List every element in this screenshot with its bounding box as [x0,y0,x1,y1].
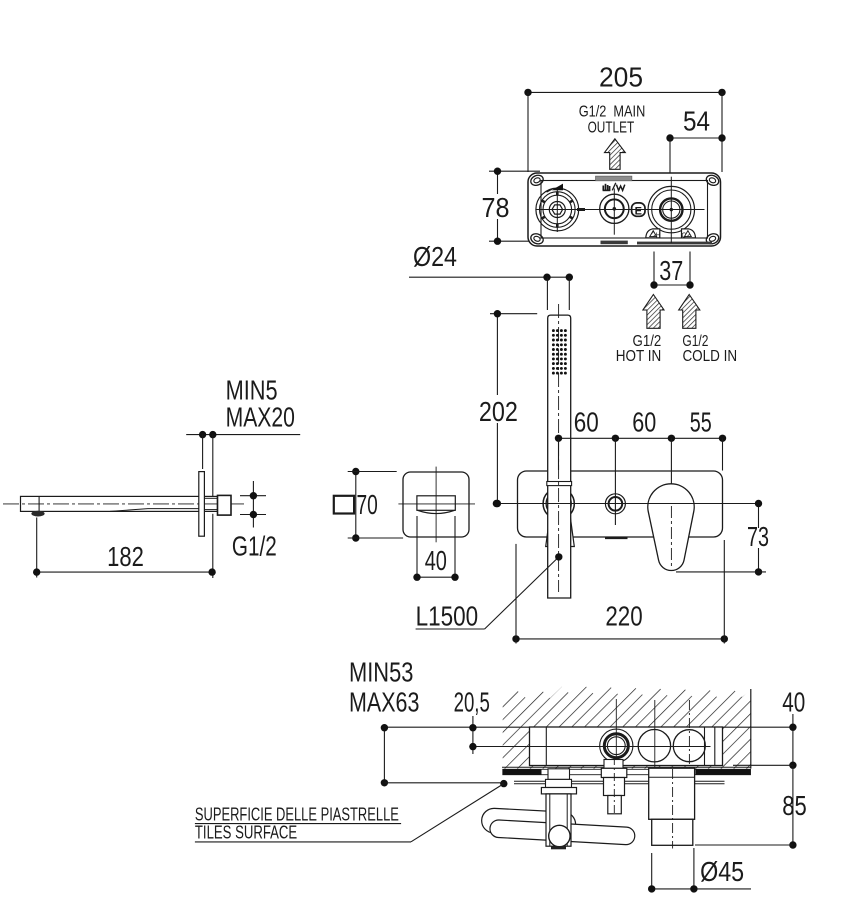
diverter knob on plate [605,494,625,514]
center port (diverter) circles [600,194,629,223]
tiles surface leader dot [500,780,507,787]
spout wall escutcheon (side view) [199,472,205,537]
center port vertical centerline [613,188,615,234]
handshower holder cup [546,519,575,547]
svg-text:20,5: 20,5 [454,687,490,718]
handshower centerline [558,304,560,592]
svg-text:TILES SURFACE: TILES SURFACE [195,822,297,843]
body horizontal centerline [537,209,705,211]
tile back line [502,766,751,768]
handshower spray face dots [552,329,555,332]
spout outlet bump [31,511,44,517]
diverter seat dark band [602,769,626,773]
mixer body outer housing [528,173,721,246]
svg-text:85: 85 [782,790,807,821]
side view cartridge circles [638,730,670,762]
dimension 40 (spout width) [416,516,418,577]
holder seat [548,769,570,780]
cold foot C [682,229,696,238]
spout tube (side view) [21,496,218,511]
plate horizontal centerline [496,503,758,505]
left valve (volume control) circles [536,188,579,231]
wall section hatch [503,687,751,769]
hot inlet hatched arrow [643,295,664,329]
left valve notches [570,217,573,219]
svg-text:60: 60 [632,407,656,438]
dimension 182 [36,518,38,578]
svg-text:COLD IN: COLD IN [682,348,737,365]
bath/shower icon [602,186,604,191]
svg-text:40: 40 [782,687,805,718]
trim plate bottom notch [605,537,628,539]
svg-text:73: 73 [747,521,769,552]
mixer body (side view) [530,727,723,766]
mixer body bottom notches [601,241,628,245]
handshower wand joint [547,482,572,486]
svg-text:40: 40 [425,545,447,576]
dimension 78 (body height) [489,170,540,172]
corner tab hole BR [705,232,720,246]
corner tab hole BL [529,232,544,246]
reference line body top level [384,726,793,728]
svg-text:220: 220 [605,601,642,632]
spout escutcheon square (front view) [403,472,469,537]
dimension square-70 [334,496,354,514]
lever handle (side view) [649,768,695,819]
dimension 205 (body width) [528,91,722,93]
svg-text:202: 202 [479,396,518,427]
dimension 202 (handshower height) [490,313,537,315]
svg-text:E: E [635,205,642,217]
svg-text:37: 37 [659,255,683,286]
side view centerlines [615,699,617,772]
dimension 54 [670,137,722,139]
dimension 220 [516,638,724,640]
dimension row 60 / 60 / 55 [559,437,723,439]
svg-text:Ø24: Ø24 [413,241,457,272]
trim plate front lines (side view) [514,780,725,782]
svg-text:MAX20: MAX20 [226,402,295,433]
dimension G1/2 thread [240,495,266,497]
svg-text:205: 205 [599,62,643,93]
svg-text:L1500: L1500 [416,601,479,632]
tiles (black bar solid parts) [503,769,542,774]
holder flange [541,788,576,794]
svg-text:OUTLET: OUTLET [588,120,635,137]
holder body [546,794,571,846]
trim plate (front view) [518,471,723,537]
svg-text:54: 54 [683,106,710,137]
spout nose front [417,496,455,511]
right valve (mixer cartridge) circles [648,186,694,232]
svg-text:70: 70 [357,489,378,520]
left valve arrow mark [552,184,564,191]
hot foot H [646,229,660,238]
side view valve ring [600,729,633,762]
lever handle (front view) [648,484,694,571]
main outlet hatched arrow [605,139,626,170]
right valve vertical centerline [670,177,672,243]
handshower wand [548,315,571,598]
dimension diameter 45 [651,853,653,889]
handle seat dark band [651,769,694,772]
leader line for diameter 24 [409,276,569,278]
diverter stem (side view) [601,768,627,777]
spout centerline [3,503,246,505]
svg-text:G1/2: G1/2 [232,531,277,562]
cold inlet hatched arrow [679,295,700,329]
mixer body inner frame [541,181,708,239]
svg-text:H: H [655,232,660,239]
svg-text:MAX63: MAX63 [349,687,419,718]
diverter valve seat [604,760,623,769]
corner tab hole TR [705,173,720,187]
holder knurl [551,846,566,849]
mixer body top slot [596,176,632,181]
svg-text:C: C [681,232,686,239]
handshower wand (side view, in holder) [481,808,576,837]
dimension 37 (hot-cold spacing) [653,252,655,286]
svg-text:MIN53: MIN53 [349,657,413,688]
svg-text:60: 60 [574,407,599,438]
left valve crosshair [536,209,585,211]
spout connection nut [218,495,232,515]
holder clamp circle [549,825,570,846]
svg-text:G1/2 MAIN: G1/2 MAIN [579,104,646,121]
svg-text:182: 182 [107,541,144,572]
svg-text:Ø45: Ø45 [700,856,744,887]
handle centerline [670,506,672,568]
spout underside taper [110,509,148,512]
svg-text:HOT IN: HOT IN [616,348,662,365]
trim plate bar outline (side view) [503,769,751,774]
svg-text:78: 78 [482,192,510,223]
dimension 73 [758,504,760,572]
holder stem through tile [546,779,572,787]
E badge [632,203,645,216]
handshower holder ring [543,488,574,519]
left valve hex center [552,205,563,214]
spout collar behind nut [204,497,217,499]
corner tab hole TL [529,173,544,187]
escutcheon centerlines [435,467,437,543]
svg-text:55: 55 [690,407,712,438]
